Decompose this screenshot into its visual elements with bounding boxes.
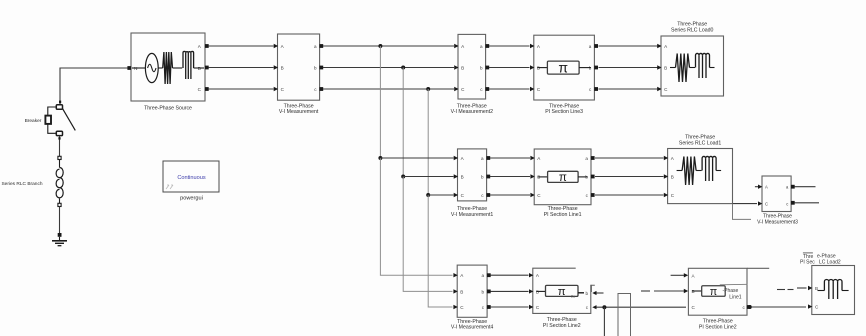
ground bbox=[52, 233, 67, 246]
junction node phase c middle row bbox=[426, 193, 430, 197]
wire PI Section Line3 a to Series RLC Load0 A bbox=[599, 45, 658, 47]
svg-text:A: A bbox=[536, 273, 540, 278]
bus wire phase b vertical drop bbox=[402, 68, 404, 177]
bus wire phase a vertical drop bbox=[379, 46, 381, 158]
input port B of Three-Phase Series RLC Load1 bbox=[664, 174, 668, 178]
input port C of V-I Measurement3 bbox=[758, 201, 762, 205]
wire Series RLC Load1 bottom to V-I Measurement3 C bbox=[733, 203, 758, 205]
AC source symbol inside Three-Phase Source bbox=[132, 53, 163, 82]
input port C of Three-Phase V-I Measurement2 bbox=[454, 87, 458, 91]
junction node on wire c bottom row bbox=[602, 305, 606, 309]
svg-text:a: a bbox=[481, 273, 484, 278]
label PI Section Line2 (left) bbox=[543, 317, 581, 329]
input port B of Three-Phase V-I Measurement2 bbox=[454, 65, 458, 69]
svg-text:π: π bbox=[559, 171, 567, 184]
input port A of PI Section Line2 (left) bbox=[529, 273, 533, 277]
output port a of Three-Phase V-I Measurement2 bbox=[485, 44, 489, 48]
svg-text:PI Section Line3: PI Section Line3 bbox=[545, 109, 583, 115]
input port B of Three-Phase V-I Measurement1 bbox=[454, 174, 458, 178]
label Three-Phase V-I Measurement bbox=[279, 103, 319, 115]
svg-text:PI Section Line2: PI Section Line2 bbox=[699, 325, 737, 331]
resistor symbol inside Three-Phase Series RLC Load0 bbox=[670, 67, 676, 69]
ghost wire below Series RLC Load1 bbox=[733, 204, 752, 220]
wire inside Three-Phase Series RLC Load1 bbox=[696, 170, 702, 172]
input port B of PI Section Line2 (left) bbox=[529, 289, 533, 293]
block Three-Phase PI Section Line2 (right) bbox=[688, 268, 769, 315]
wire PI Section Line1 b to Series RLC Load1 B bbox=[595, 176, 664, 178]
output port b of Three-Phase V-I Measurement4 bbox=[487, 290, 491, 294]
svg-text:b: b bbox=[480, 66, 483, 71]
wire inductor to edge inside Three-Phase Source bbox=[194, 67, 204, 69]
resistor symbol inside Three-Phase Source bbox=[163, 52, 173, 84]
ghost label Three-Phase Line1 overlapping bbox=[720, 284, 748, 300]
svg-text:π: π bbox=[710, 286, 717, 298]
wire V-I Measurement1 b to PI Section Line1 B bbox=[490, 176, 530, 178]
wire stub into PI Section Line2 (right) A bbox=[671, 274, 685, 276]
wire middle row phase a to V-I Measurement1 bbox=[380, 157, 453, 159]
output port c of Three-Phase V-I Measurement2 bbox=[485, 87, 489, 91]
svg-text:b: b bbox=[481, 175, 484, 180]
wire segment into PI Section Line2 (right) B (dashed remnant) bbox=[641, 290, 685, 292]
output port c of PI Section Line2 (right) bbox=[747, 305, 806, 309]
output port b of Three-Phase PI Section Line3 bbox=[594, 66, 598, 70]
input port C of Three-Phase Series RLC Load1 bbox=[664, 193, 668, 197]
junction node on phase c bbox=[426, 87, 430, 91]
svg-text:V-I Measurement1: V-I Measurement1 bbox=[451, 212, 493, 218]
output port a of Three-Phase PI Section Line3 bbox=[594, 44, 598, 48]
svg-text:PI Sec: PI Sec bbox=[800, 260, 815, 266]
label Three-Phase Series RLC Load0 bbox=[671, 21, 714, 33]
input port C of Three-Phase PI Section Line3 bbox=[530, 87, 534, 91]
output port a of Three-Phase V-I Measurement4 bbox=[487, 273, 491, 277]
ghost overlapping labels above RLC Load2 bbox=[800, 253, 841, 266]
wire source B to V-I Measurement B bbox=[209, 67, 274, 69]
label Three-Phase PI Section Line3 bbox=[545, 103, 583, 115]
pi section symbol inside Three-Phase PI Section Line3 bbox=[537, 60, 591, 76]
port C of Three-Phase Source bbox=[205, 87, 209, 91]
svg-text:a: a bbox=[589, 44, 592, 49]
svg-text:a: a bbox=[481, 156, 484, 161]
label Three-Phase Series RLC Load1 bbox=[679, 134, 722, 146]
input port A of Three-Phase PI Section Line1 bbox=[530, 156, 534, 160]
wire V-I Measurement2 b to PI Section Line3 B bbox=[489, 67, 530, 69]
input port A of Three-Phase Series RLC Load0 bbox=[657, 44, 661, 48]
svg-text:A: A bbox=[765, 185, 768, 190]
inductor symbol inside Three-Phase Series RLC Load1 bbox=[702, 156, 716, 170]
svg-text:a: a bbox=[480, 44, 483, 49]
output port a of Three-Phase V-I Measurement bbox=[319, 44, 323, 48]
input port C of PI Section Line2 (left) bbox=[529, 305, 533, 309]
bus wire phase c drop to bottom row bbox=[428, 195, 452, 307]
svg-text:V-I Measurement2: V-I Measurement2 bbox=[451, 109, 493, 115]
svg-text:π: π bbox=[558, 60, 568, 76]
input arrow B of PI Section Line2 (right) bbox=[684, 289, 688, 293]
wire V-I Measurement b to V-I Measurement2 B bbox=[323, 67, 454, 69]
svg-text:Three-Phase: Three-Phase bbox=[547, 317, 577, 323]
dashed wire remnant into RLC Load2 B bbox=[777, 288, 807, 290]
block Three-Phase PI Section Line3 bbox=[534, 35, 595, 100]
label Three-Phase PI Section Line1 bbox=[544, 206, 582, 218]
breaker Breaker bbox=[45, 101, 75, 136]
label Three-Phase V-I Measurement1 bbox=[451, 206, 493, 218]
svg-text:c: c bbox=[586, 305, 589, 310]
svg-text:π: π bbox=[558, 286, 566, 298]
wire V-I Measurement4 c to PI Section Line2 C bbox=[491, 306, 529, 308]
block Three-Phase PI Section Line1 bbox=[534, 149, 591, 205]
junction node phase a middle row bbox=[378, 156, 382, 160]
junction node on phase b bbox=[401, 66, 405, 70]
svg-text:b: b bbox=[585, 291, 588, 296]
input port A of Three-Phase PI Section Line3 bbox=[530, 44, 534, 48]
input port C of Three-Phase Series RLC Load0 bbox=[657, 87, 661, 91]
svg-text:Three-Phase Source: Three-Phase Source bbox=[144, 106, 192, 112]
svg-text:PI Section Line2: PI Section Line2 bbox=[543, 323, 581, 329]
svg-text:a: a bbox=[314, 44, 317, 49]
svg-text:a: a bbox=[585, 156, 588, 161]
label V-I Measurement3 bbox=[757, 213, 798, 225]
output port c of V-I Measurement3 bbox=[791, 201, 819, 205]
input port C of Three-Phase V-I Measurement bbox=[274, 87, 278, 91]
svg-text:Series RLC Branch: Series RLC Branch bbox=[1, 181, 42, 187]
block Three-Phase V-I Measurement1 bbox=[458, 149, 487, 201]
svg-text:Three-Phase: Three-Phase bbox=[677, 21, 707, 27]
output port b of Three-Phase V-I Measurement2 bbox=[485, 66, 489, 70]
svg-text:c: c bbox=[786, 202, 788, 207]
bus wire phase b drop to bottom row bbox=[403, 177, 452, 292]
input port A of Three-Phase Series RLC Load1 bbox=[664, 156, 668, 160]
output port c of PI Section Line2 (left) bbox=[592, 305, 686, 309]
port N of Three-Phase Source bbox=[127, 66, 131, 70]
port A of Three-Phase Source bbox=[205, 44, 209, 48]
input port B of Three-Phase PI Section Line3 bbox=[530, 65, 534, 69]
wire PI Section Line1 c to Series RLC Load1 C bbox=[595, 194, 664, 196]
wire breaker to Series RLC Branch bbox=[58, 136, 60, 157]
input port B of Three-Phase V-I Measurement bbox=[274, 65, 278, 69]
inductor Series RLC Branch bbox=[56, 156, 63, 206]
input port C of Three-Phase PI Section Line1 bbox=[530, 193, 534, 197]
input port A of Three-Phase V-I Measurement2 bbox=[454, 44, 458, 48]
output port c of Three-Phase PI Section Line1 bbox=[591, 193, 595, 197]
output port a of V-I Measurement3 bbox=[791, 185, 816, 189]
svg-text:Three-Phase: Three-Phase bbox=[703, 318, 733, 324]
output port c of Three-Phase V-I Measurement1 bbox=[486, 193, 490, 197]
svg-text:C: C bbox=[536, 305, 540, 310]
resistor symbol inside Three-Phase Series RLC Load1 bbox=[677, 170, 683, 172]
output port c of Three-Phase V-I Measurement bbox=[319, 87, 323, 91]
block Three-Phase Series RLC Load1 bbox=[668, 149, 733, 204]
pi section symbol inside Three-Phase PI Section Line1 bbox=[538, 171, 588, 184]
input port B of Three-Phase PI Section Line1 bbox=[530, 174, 534, 178]
wire V-I Measurement a to V-I Measurement2 A bbox=[323, 45, 454, 47]
unfinished stub wires to off-screen block bbox=[618, 294, 631, 336]
svg-text:B: B bbox=[461, 66, 464, 71]
svg-text:V-I Measurement3: V-I Measurement3 bbox=[757, 219, 798, 225]
svg-text:B: B bbox=[281, 66, 284, 71]
wire middle row phase b to V-I Measurement1 bbox=[403, 176, 453, 178]
wire V-I Measurement1 a to PI Section Line1 A bbox=[490, 157, 530, 159]
wire PI Section Line3 c to Series RLC Load0 C bbox=[599, 88, 658, 90]
input port C of Three-Phase V-I Measurement1 bbox=[454, 193, 458, 197]
block Three-Phase V-I Measurement4 bbox=[457, 265, 487, 317]
svg-text:b: b bbox=[314, 66, 317, 71]
block Three-Phase V-I Measurement2 bbox=[458, 34, 486, 99]
inductor symbol inside Series RLC Load2 bbox=[818, 280, 849, 300]
label Three-Phase V-I Measurement2 bbox=[451, 103, 493, 115]
pi section symbol inside PI Section Line2 (right) bbox=[692, 286, 725, 298]
block Three-Phase Series RLC Load0 bbox=[661, 36, 724, 96]
output port b of Three-Phase V-I Measurement bbox=[319, 66, 323, 70]
wire source C to V-I Measurement C bbox=[209, 88, 274, 90]
pi section symbol inside PI Section Line2 (left) bbox=[536, 285, 584, 298]
input port B of Series RLC Load2 bbox=[808, 286, 812, 290]
svg-text:V-I Measurement4: V-I Measurement4 bbox=[451, 325, 493, 331]
svg-text:Series RLC Load0: Series RLC Load0 bbox=[671, 28, 714, 34]
input port C of Three-Phase V-I Measurement4 bbox=[453, 305, 457, 309]
inductor symbol inside Three-Phase Source bbox=[183, 51, 194, 68]
output port c of Three-Phase PI Section Line3 bbox=[594, 87, 598, 91]
bus wire phase a drop to bottom row bbox=[380, 158, 452, 275]
input arrow A of PI Section Line2 (right) bbox=[684, 273, 688, 277]
wire inside Three-Phase Series RLC Load0 bbox=[690, 67, 696, 69]
wire V-I Measurement2 a to PI Section Line3 A bbox=[489, 45, 530, 47]
svg-text:Continuous: Continuous bbox=[177, 175, 206, 181]
block U1 Three-Phase Source bbox=[131, 33, 205, 101]
wire PI Section Line3 b to Series RLC Load0 B bbox=[599, 67, 658, 69]
svg-text:B: B bbox=[461, 175, 464, 180]
block Three-Phase V-I Measurement3 bbox=[762, 176, 791, 212]
label PI Section Line2 (right) bbox=[699, 318, 737, 330]
wire V-I Measurement4 a to PI Section Line2 A bbox=[491, 274, 529, 276]
block Three-Phase Series RLC Load2 bbox=[812, 266, 855, 315]
wire inside Three-Phase Source bbox=[173, 67, 183, 69]
input port B of Three-Phase Series RLC Load0 bbox=[657, 65, 661, 69]
svg-text:Series RLC Load1: Series RLC Load1 bbox=[679, 141, 722, 147]
wire source A to V-I Measurement A bbox=[209, 45, 274, 47]
wire V-I Measurement2 c to PI Section Line3 C bbox=[489, 88, 530, 90]
wire middle row phase c to V-I Measurement1 bbox=[428, 194, 453, 196]
wire PI Section Line1 a to Series RLC Load1 A bbox=[595, 157, 664, 159]
input port A of Three-Phase V-I Measurement4 bbox=[453, 273, 457, 277]
svg-text:B: B bbox=[664, 66, 667, 71]
svg-text:Breaker: Breaker bbox=[25, 118, 42, 124]
svg-text:C: C bbox=[765, 202, 768, 207]
input port A of Three-Phase V-I Measurement1 bbox=[454, 156, 458, 160]
block Three-Phase V-I Measurement bbox=[278, 34, 320, 100]
svg-text:B: B bbox=[671, 175, 674, 180]
svg-text:b: b bbox=[481, 289, 484, 294]
svg-text:Three-Phase: Three-Phase bbox=[685, 134, 715, 140]
output port b of Three-Phase V-I Measurement1 bbox=[486, 175, 490, 179]
port B of Three-Phase Source bbox=[205, 66, 209, 70]
svg-text:Line1: Line1 bbox=[729, 294, 741, 300]
input port B of Three-Phase V-I Measurement4 bbox=[453, 289, 457, 293]
block Three-Phase PI Section Line2 (left) bbox=[533, 268, 591, 313]
junction node on phase a bbox=[378, 44, 382, 48]
input port C of Series RLC Load2 bbox=[808, 304, 812, 308]
wire Series RLC Branch to ground bbox=[59, 207, 61, 234]
svg-text:V-I Measurement: V-I Measurement bbox=[279, 109, 319, 115]
svg-text:powergui: powergui bbox=[180, 196, 203, 202]
input port A of V-I Measurement3 bbox=[755, 185, 763, 189]
bus wire drop from junction c to bottom edge bbox=[603, 307, 605, 336]
wire V-I Measurement4 b to PI Section Line2 B bbox=[491, 290, 529, 292]
svg-text:-Phase: -Phase bbox=[723, 288, 739, 294]
output port b of PI Section Line2 (left) bbox=[592, 291, 603, 295]
output port a of Three-Phase PI Section Line1 bbox=[591, 156, 595, 160]
wire from Three-Phase Source N port to breaker bbox=[60, 68, 130, 104]
output port c of Three-Phase V-I Measurement4 bbox=[487, 305, 491, 309]
wire V-I Measurement c to V-I Measurement2 C bbox=[323, 88, 454, 90]
inductor symbol inside Three-Phase Series RLC Load0 bbox=[696, 53, 710, 67]
output port b of Three-Phase PI Section Line1 bbox=[591, 175, 595, 179]
label Three-Phase V-I Measurement4 bbox=[451, 319, 493, 331]
block powergui (Continuous) bbox=[163, 161, 219, 192]
svg-text:B: B bbox=[460, 289, 463, 294]
output port a of Three-Phase V-I Measurement1 bbox=[486, 156, 490, 160]
junction node phase b middle row bbox=[401, 175, 405, 179]
svg-text:PI Section Line1: PI Section Line1 bbox=[544, 212, 582, 218]
wire V-I Measurement1 c to PI Section Line1 C bbox=[490, 194, 530, 196]
bus wire phase c vertical drop bbox=[427, 89, 429, 195]
svg-text:LC Load2: LC Load2 bbox=[819, 259, 841, 265]
ghost block corner fragment bbox=[591, 285, 594, 292]
input port A of Three-Phase V-I Measurement bbox=[274, 44, 278, 48]
